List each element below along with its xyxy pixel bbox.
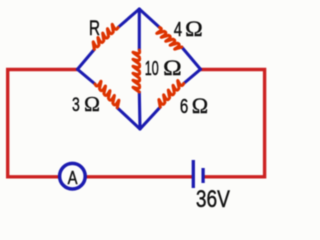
svg-text:4: 4 [174,19,182,41]
svg-text:36V: 36V [196,186,230,208]
svg-text:R: R [89,16,100,40]
svg-text:3: 3 [72,94,80,116]
svg-text:Ω: Ω [185,16,203,41]
svg-text:10: 10 [145,57,159,80]
svg-text:6: 6 [180,95,188,118]
svg-text:Ω: Ω [163,55,182,80]
svg-text:Ω: Ω [84,92,100,116]
svg-text:A: A [68,167,78,188]
svg-text:Ω: Ω [192,93,208,118]
